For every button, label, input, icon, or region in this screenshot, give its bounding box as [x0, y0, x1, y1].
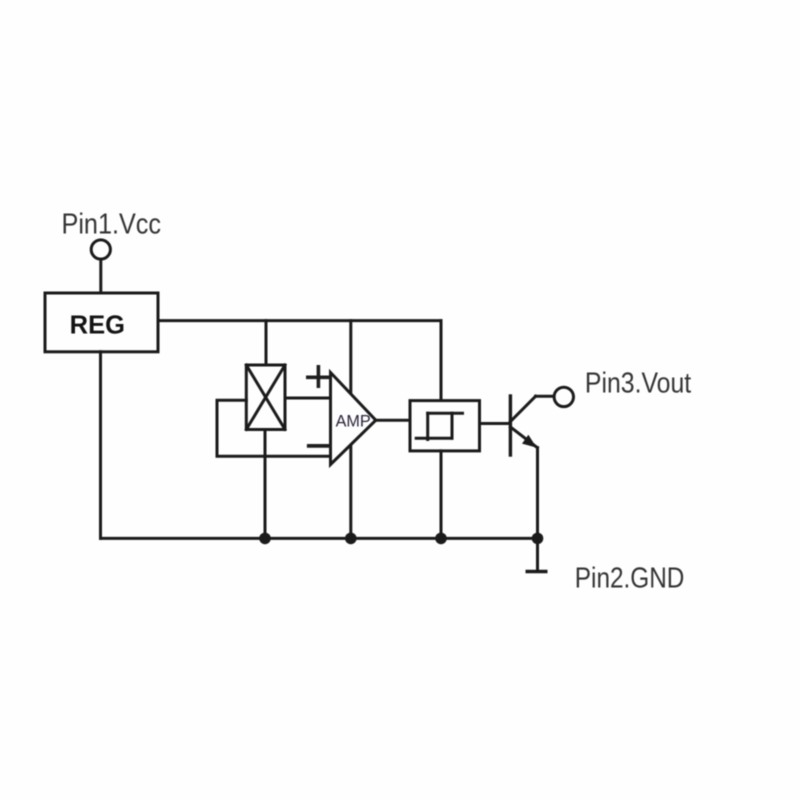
wire emitter down to ground rail [536, 448, 539, 539]
transistor Q1 [510, 396, 554, 455]
wire REG bottom down to ground rail [99, 352, 102, 539]
junction dot amp/ground rail [345, 533, 357, 545]
label Pin2.GND [575, 562, 685, 594]
svg-text:Pin1.Vcc: Pin1.Vcc [62, 207, 162, 240]
label Pin3.Vout [585, 367, 692, 399]
wire schmitt output to transistor base [480, 422, 511, 425]
label Pin1.Vcc [62, 207, 162, 240]
wire Pin1 to REG [99, 259, 102, 293]
wire rail branch through amp to ground rail [349, 321, 352, 539]
junction dot schmitt/ground rail [435, 533, 447, 545]
wire hall to amp plus input [285, 397, 331, 400]
terminal Pin1 (Vcc) [91, 240, 110, 259]
svg-text:Pin2.GND: Pin2.GND [575, 562, 685, 594]
svg-text:REG: REG [70, 311, 125, 339]
ground Pin2 [526, 538, 548, 571]
svg-text:Pin3.Vout: Pin3.Vout [585, 367, 692, 399]
wire rail corner down to schmitt top [440, 321, 443, 401]
wire hall bottom down to ground rail [264, 430, 267, 539]
terminal Pin3 (Vout) [554, 387, 573, 406]
wire hall left feedback loop [217, 400, 331, 456]
wire schmitt bottom down to ground rail [440, 451, 443, 539]
op-amp AMP [331, 373, 376, 465]
schmitt trigger U2 [410, 401, 480, 451]
wire top supply rail [158, 319, 441, 322]
junction dot emitter/ground rail [532, 533, 544, 545]
wire amp output to schmitt [376, 419, 410, 422]
hall element X1 [246, 365, 285, 430]
svg-text:AMP: AMP [336, 412, 371, 430]
plus input marker [308, 367, 329, 386]
minus input marker [309, 444, 330, 448]
wire ground rail [101, 537, 538, 540]
wire rail branch to hall element [265, 321, 268, 365]
regulator REG [45, 293, 158, 352]
junction dot hall/ground rail [259, 533, 271, 545]
